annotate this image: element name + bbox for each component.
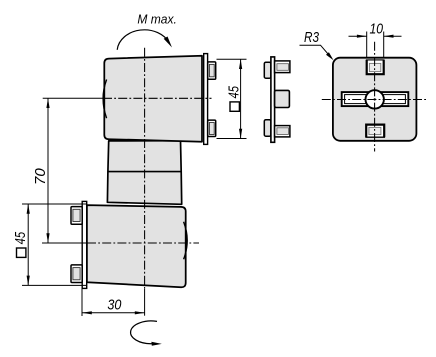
horizontal centerline face view bbox=[322, 99, 428, 101]
top clamp body bbox=[103, 54, 216, 145]
dimension square45 right bbox=[217, 59, 247, 139]
svg-text:45: 45 bbox=[225, 86, 242, 99]
right tab middle sideview bbox=[275, 90, 290, 107]
top tab of top clamp bbox=[208, 62, 216, 79]
bottom tab face view bbox=[366, 125, 384, 138]
clamp plate top clamp bbox=[204, 54, 208, 145]
svg-text:10: 10 bbox=[369, 21, 383, 38]
dimension 70 bbox=[32, 98, 104, 243]
slot outer face view bbox=[342, 92, 409, 106]
horizontal centerline top clamp bbox=[103, 97, 212, 99]
M max label and arc arrow bbox=[117, 11, 177, 50]
main front view of cross tube clamp bbox=[12, 11, 247, 346]
svg-text:45: 45 bbox=[12, 231, 29, 244]
svg-text:30: 30 bbox=[107, 296, 122, 313]
right tab upper sideview bbox=[275, 61, 290, 73]
square body face view bbox=[333, 58, 417, 141]
connector block between clamps bbox=[107, 141, 181, 205]
plate sideview bbox=[271, 57, 275, 142]
dimension 30 bbox=[82, 289, 145, 316]
horizontal centerline bottom clamp bbox=[87, 242, 199, 244]
side view plate with tabs bbox=[264, 57, 290, 142]
slot inner face view bbox=[345, 95, 406, 104]
dimension 10 bbox=[349, 21, 402, 58]
vertical centerline face view bbox=[374, 42, 376, 152]
tube end arc top clamp bbox=[103, 80, 107, 119]
vertical centerline bbox=[144, 48, 146, 289]
bottom tab of bottom clamp bbox=[71, 265, 82, 283]
clamp plate bottom clamp bbox=[82, 201, 87, 288]
svg-text:R3: R3 bbox=[304, 29, 320, 46]
top tab of bottom clamp bbox=[71, 207, 82, 225]
top tab face view bbox=[367, 60, 384, 74]
center circle face view bbox=[366, 90, 384, 108]
bottom tab of top clamp bbox=[208, 120, 216, 136]
face view square bbox=[300, 21, 429, 152]
svg-text:70: 70 bbox=[32, 168, 49, 185]
left tab lower sideview bbox=[264, 120, 271, 137]
bottom clamp body bbox=[71, 201, 187, 288]
left tab upper sideview bbox=[264, 62, 271, 78]
tube end arc bottom clamp bbox=[184, 222, 188, 259]
right tab lower sideview bbox=[275, 126, 290, 137]
svg-text:M max.: M max. bbox=[137, 11, 177, 26]
rotation arc arrow bottom bbox=[131, 321, 162, 346]
dimension square45 left bbox=[12, 204, 87, 286]
R3 label and leader bbox=[300, 29, 334, 60]
